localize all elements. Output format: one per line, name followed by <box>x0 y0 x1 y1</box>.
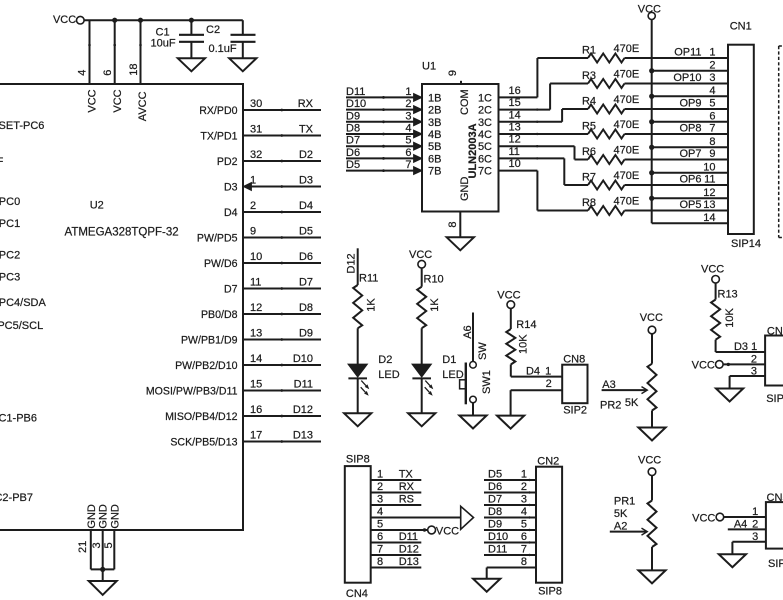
svg-text:2: 2 <box>377 481 383 493</box>
off-page arrow <box>461 506 474 529</box>
ic U2 ATMEGA328TQPF-32 body <box>0 84 243 530</box>
wire CN2 pin 2 D6 <box>484 492 536 494</box>
wire CN5 pin 3 to ground <box>732 541 766 543</box>
svg-text:1: 1 <box>545 366 551 378</box>
svg-text:R11: R11 <box>359 273 378 285</box>
svg-text:14: 14 <box>703 212 715 224</box>
svg-text:SCK/PB5/D13: SCK/PB5/D13 <box>170 437 237 449</box>
wire U1 input D9 <box>346 121 414 123</box>
svg-text:R14: R14 <box>516 319 536 331</box>
wire VCC bus CN1 <box>651 20 653 224</box>
svg-text:2: 2 <box>546 378 552 390</box>
svg-text:CN8: CN8 <box>563 353 585 365</box>
svg-text:SIP8: SIP8 <box>538 585 562 597</box>
ground <box>447 237 474 250</box>
wire U2 pin 11 <box>244 288 322 290</box>
connector CN1 SIP14 <box>728 45 754 234</box>
svg-text:SW1: SW1 <box>481 370 493 394</box>
pin 9 COM stub <box>460 81 462 84</box>
wire CN2 pin 3 D7 <box>484 504 536 506</box>
svg-text:R4: R4 <box>582 96 596 108</box>
svg-text:1B: 1B <box>428 92 441 104</box>
input arrow U1 pin 2 <box>414 106 422 114</box>
wire R14 to CN8 pin 1 <box>510 365 512 377</box>
svg-text:7: 7 <box>521 544 527 556</box>
svg-text:4: 4 <box>405 123 411 135</box>
wire U2 pin 15 <box>244 390 322 392</box>
svg-text:R6: R6 <box>582 146 596 158</box>
svg-text:D7: D7 <box>224 284 238 296</box>
svg-text:D7: D7 <box>299 277 313 289</box>
svg-text:VCC: VCC <box>497 289 520 301</box>
svg-text:D2: D2 <box>378 354 392 366</box>
svg-text:U1: U1 <box>422 61 436 73</box>
svg-text:D5: D5 <box>299 226 313 238</box>
svg-text:4B: 4B <box>428 129 441 141</box>
wire U2 pin 6 VCC drop <box>114 20 116 84</box>
svg-text:VCC: VCC <box>436 525 459 537</box>
svg-text:21: 21 <box>77 541 89 553</box>
svg-text:1: 1 <box>521 469 527 481</box>
wire CN1 pin 6 <box>652 121 728 123</box>
wire U1 output to R3 <box>499 109 551 111</box>
wire R13 to CN3 pin 1 <box>715 340 717 352</box>
svg-text:RX: RX <box>399 481 415 493</box>
potentiometer PR2 <box>648 364 657 411</box>
resistor R13 <box>711 300 720 340</box>
svg-text:D3: D3 <box>224 182 238 194</box>
svg-text:OP7: OP7 <box>679 148 701 160</box>
junction <box>112 18 117 23</box>
svg-text:3: 3 <box>377 494 383 506</box>
svg-text:7C: 7C <box>478 166 492 178</box>
ground <box>638 570 665 583</box>
wire R11 to D2 <box>357 328 359 364</box>
svg-text:D6: D6 <box>346 147 360 159</box>
svg-text:PW/PD5: PW/PD5 <box>197 233 238 245</box>
wire U2 pin 3 GND <box>102 530 104 569</box>
svg-text:D6: D6 <box>488 481 502 493</box>
svg-text:D11: D11 <box>346 86 365 98</box>
svg-text:RX/PD0: RX/PD0 <box>199 105 237 117</box>
svg-text:D12: D12 <box>293 404 313 416</box>
svg-text:470E: 470E <box>614 43 640 55</box>
svg-text:R10: R10 <box>424 274 444 286</box>
svg-text:D12: D12 <box>399 544 419 556</box>
svg-text:D1: D1 <box>442 354 456 366</box>
wire R3 to CN1 <box>625 83 729 85</box>
wire U2 pin 10 <box>244 262 322 264</box>
ic U1 ULN2003A body <box>422 84 499 212</box>
svg-text:18: 18 <box>128 63 140 75</box>
connector CN8 SIP2 <box>562 365 587 404</box>
wire U2 pin 13 <box>244 339 322 341</box>
wire VCC to R13 <box>715 283 717 299</box>
svg-text:8: 8 <box>521 556 527 568</box>
svg-text:6: 6 <box>102 70 114 76</box>
svg-text:12: 12 <box>509 134 521 146</box>
svg-text:PW/PB2/D10: PW/PB2/D10 <box>175 360 238 372</box>
svg-text:PC0: PC0 <box>0 196 20 208</box>
wire CN5 pin 2 A4 <box>728 528 766 530</box>
svg-text:3B: 3B <box>428 117 441 129</box>
svg-text:TX: TX <box>299 124 314 136</box>
svg-text:A4: A4 <box>734 518 747 530</box>
wire R4 to CN1 <box>625 108 729 110</box>
wire U2 pin 1 <box>244 186 322 188</box>
resistor R4 <box>588 105 625 114</box>
wire U2 pin 18 AVCC drop <box>140 20 142 84</box>
svg-text:U2: U2 <box>90 200 104 212</box>
svg-text:1: 1 <box>377 469 383 481</box>
resistor R11 <box>353 285 362 328</box>
svg-text:D12: D12 <box>346 253 358 273</box>
wire VCC to R10 <box>421 268 423 287</box>
svg-text:VCC: VCC <box>112 89 124 112</box>
svg-text:CN5: CN5 <box>767 492 783 504</box>
svg-text:PB0/D8: PB0/D8 <box>201 309 238 321</box>
wire CN2 pin 6 D10 <box>484 542 536 544</box>
junction <box>649 68 654 73</box>
svg-text:D9: D9 <box>488 519 502 531</box>
svg-text:6: 6 <box>405 147 411 159</box>
ground <box>229 58 256 71</box>
svg-text:D5: D5 <box>346 159 360 171</box>
svg-text:A3: A3 <box>602 379 615 391</box>
wire U2 pin 31 <box>244 135 322 137</box>
wire U2 pin 12 <box>244 313 322 315</box>
ground <box>473 579 500 592</box>
wire VCC rail <box>84 19 243 21</box>
wire U1 input D5 <box>346 170 414 172</box>
svg-text:6: 6 <box>377 531 383 543</box>
svg-text:TX: TX <box>399 469 414 481</box>
svg-text:11: 11 <box>704 174 715 186</box>
svg-text:PR2: PR2 <box>600 400 621 412</box>
svg-text:8: 8 <box>709 136 715 148</box>
wire U2 pin 9 <box>244 237 322 239</box>
svg-text:D11: D11 <box>294 379 313 391</box>
svg-text:1K: 1K <box>366 298 378 312</box>
wire CN2 pin 8 to ground <box>487 567 536 569</box>
svg-text:13: 13 <box>509 122 521 134</box>
svg-text:11: 11 <box>250 276 261 288</box>
wire U2 pin 2 <box>244 211 322 213</box>
wire U1 output to R1 <box>499 96 538 98</box>
wire D2 to ground <box>357 378 359 413</box>
wire U1 output to R8 <box>499 170 538 172</box>
svg-text:470E: 470E <box>614 170 640 182</box>
svg-text:D3: D3 <box>734 341 748 353</box>
wire U1 input D6 <box>346 157 414 159</box>
svg-text:7: 7 <box>377 544 383 556</box>
svg-text:10: 10 <box>250 251 262 263</box>
wire CN2 pin 7 D11 <box>484 554 536 556</box>
svg-text:VCC: VCC <box>638 455 661 467</box>
svg-text:2: 2 <box>709 59 715 71</box>
svg-text:D2: D2 <box>299 149 313 161</box>
svg-text:CN2: CN2 <box>537 456 559 468</box>
svg-text:OP9: OP9 <box>679 98 701 110</box>
svg-text:0.1uF: 0.1uF <box>209 43 237 55</box>
svg-text:5C: 5C <box>478 141 492 153</box>
junction <box>649 170 654 175</box>
junction <box>649 94 654 99</box>
wire C2 to ground <box>242 42 244 59</box>
led D2 <box>348 364 367 376</box>
svg-text:D13: D13 <box>399 556 419 568</box>
svg-text:5K: 5K <box>614 508 628 520</box>
svg-text:D11: D11 <box>488 544 507 556</box>
svg-text:D11: D11 <box>399 531 418 543</box>
wire U2 pin 17 <box>244 441 322 443</box>
svg-text:9: 9 <box>250 225 256 237</box>
wire CN4 pin 6 D11 <box>371 542 422 544</box>
svg-text:6B: 6B <box>428 153 441 165</box>
wire VCC to R14 <box>510 308 512 329</box>
resistor R10 <box>417 287 426 329</box>
wire CN3 pin 3 to ground <box>730 375 766 377</box>
wire R1 to CN1 <box>625 57 729 59</box>
svg-text:GND: GND <box>86 504 98 529</box>
wire CN2 pin 5 D9 <box>484 529 536 531</box>
svg-text:D8: D8 <box>299 302 313 314</box>
svg-text:PC4/SDA: PC4/SDA <box>0 297 46 309</box>
wire CN1 pin 4 <box>652 95 728 97</box>
svg-text:4: 4 <box>377 506 383 518</box>
svg-text:5: 5 <box>103 542 115 548</box>
wire U1 input D11 <box>346 96 414 98</box>
svg-text:7: 7 <box>405 159 411 171</box>
svg-text:31: 31 <box>250 123 262 135</box>
wire CN1 pin 2 <box>652 70 728 72</box>
svg-text:D10: D10 <box>293 353 313 365</box>
svg-text:MISO/PB4/D12: MISO/PB4/D12 <box>165 411 238 423</box>
svg-text:RESET-PC6: RESET-PC6 <box>0 120 44 132</box>
connector CN5 SIP3 <box>766 502 783 548</box>
svg-text:6: 6 <box>709 110 715 122</box>
svg-text:1C: 1C <box>478 92 492 104</box>
wire PR2 to ground <box>651 411 653 428</box>
resistor R6 <box>588 155 625 164</box>
svg-text:2C: 2C <box>478 105 492 117</box>
wire U1 7C.. out R5 <box>499 133 589 135</box>
svg-text:17: 17 <box>250 429 262 441</box>
wire R8 to CN1 <box>625 210 729 212</box>
wire CN4 pin 7 D12 <box>371 554 422 556</box>
svg-text:32: 32 <box>250 149 262 161</box>
svg-text:13: 13 <box>250 327 262 339</box>
svg-text:470E: 470E <box>614 94 640 106</box>
svg-text:10: 10 <box>703 161 715 173</box>
svg-text:PW/PB1/D9: PW/PB1/D9 <box>181 335 238 347</box>
svg-text:3: 3 <box>405 110 411 122</box>
svg-text:D9: D9 <box>346 110 360 122</box>
input arrow U2 pin 1 D3 <box>243 183 251 191</box>
svg-text:470E: 470E <box>614 119 640 131</box>
svg-text:D10: D10 <box>488 531 508 543</box>
svg-text:D8: D8 <box>346 123 360 135</box>
input arrow U1 pin 5 <box>414 142 422 150</box>
power flag VCC (CN4 pin 5) <box>428 526 436 534</box>
svg-text:13: 13 <box>703 199 715 211</box>
svg-text:SIP14: SIP14 <box>731 238 761 250</box>
svg-text:A2: A2 <box>614 520 627 532</box>
wire R10 to D1 <box>421 328 423 364</box>
svg-text:11: 11 <box>509 146 520 158</box>
svg-text:AREF: AREF <box>0 156 4 168</box>
dashed expansion box <box>779 46 783 238</box>
svg-text:2: 2 <box>752 518 758 530</box>
svg-text:C2: C2 <box>206 24 220 36</box>
resistor R14 <box>506 329 515 365</box>
resistor R3 <box>588 79 625 88</box>
svg-text:CN3: CN3 <box>767 325 783 337</box>
svg-text:OP8: OP8 <box>679 123 701 135</box>
junction <box>649 119 654 124</box>
wire U2 pin 21 GND <box>90 530 92 569</box>
svg-text:2: 2 <box>250 200 256 212</box>
wire U1 pin 8 GND <box>459 212 461 238</box>
svg-text:16: 16 <box>509 85 521 97</box>
svg-text:AVCC: AVCC <box>137 91 149 121</box>
wire SW1 to ground <box>472 403 474 416</box>
svg-text:PW/D6: PW/D6 <box>204 258 238 270</box>
junction <box>189 18 194 23</box>
svg-text:6: 6 <box>521 531 527 543</box>
wire R5 to CN1 <box>625 133 729 135</box>
wire CN4 pin 1 TX <box>371 479 422 481</box>
input arrow U1 pin 3 <box>414 118 422 126</box>
svg-text:D8: D8 <box>488 506 502 518</box>
switch SW1 <box>470 362 477 369</box>
junction <box>100 567 105 572</box>
svg-text:R7: R7 <box>582 172 596 184</box>
wire R7 to CN1 <box>625 184 729 186</box>
wire VCC to PR1 <box>651 476 653 501</box>
svg-text:14: 14 <box>509 109 521 121</box>
wire PR1 to ground <box>651 547 653 570</box>
capacitor C2 <box>231 34 256 36</box>
wire CN5 pin 1 <box>724 516 766 518</box>
svg-text:R13: R13 <box>718 288 738 300</box>
svg-text:10K: 10K <box>517 334 529 354</box>
wire U2 pin 30 <box>244 109 322 111</box>
wire C1 to ground <box>190 42 192 59</box>
svg-text:3: 3 <box>521 494 527 506</box>
svg-text:1: 1 <box>405 86 411 98</box>
svg-text:10K: 10K <box>724 307 736 327</box>
svg-text:3: 3 <box>751 365 757 377</box>
svg-text:8: 8 <box>447 221 459 227</box>
junction <box>649 145 654 150</box>
wire to C1 <box>190 20 192 34</box>
input arrow U1 pin 4 <box>414 130 422 138</box>
ground <box>638 428 665 441</box>
svg-text:D4: D4 <box>526 366 540 378</box>
svg-text:8: 8 <box>377 556 383 568</box>
svg-text:1: 1 <box>751 341 757 353</box>
svg-text:PC1: PC1 <box>0 218 20 230</box>
svg-text:4C: 4C <box>478 129 492 141</box>
wire CN4 pin 5 VCC <box>371 529 428 531</box>
wire U1 output to R4 <box>499 121 563 123</box>
wire U2 pin 32 <box>244 160 322 162</box>
svg-text:5: 5 <box>709 98 715 110</box>
svg-text:CN4: CN4 <box>346 588 368 600</box>
resistor R1 <box>588 54 625 63</box>
svg-text:OP11: OP11 <box>674 47 701 59</box>
svg-text:VCC: VCC <box>640 312 663 324</box>
svg-text:10: 10 <box>509 158 521 170</box>
svg-text:R5: R5 <box>582 121 596 133</box>
wire U1 output to R6 <box>499 145 575 147</box>
svg-text:2: 2 <box>405 98 411 110</box>
ground <box>408 413 435 426</box>
capacitor C1 <box>179 34 204 36</box>
svg-text:5B: 5B <box>428 141 441 153</box>
resistor R5 <box>588 130 625 139</box>
svg-text:VCC: VCC <box>701 263 724 275</box>
svg-text:D7: D7 <box>346 135 360 147</box>
svg-text:15: 15 <box>509 97 521 109</box>
wire to C2 <box>242 20 244 34</box>
svg-text:OSC2-PB7: OSC2-PB7 <box>0 492 33 504</box>
input arrow U1 pin 1 <box>414 94 422 102</box>
connector CN4 SIP8 <box>345 466 371 583</box>
svg-text:GND: GND <box>459 177 471 202</box>
svg-text:10uF: 10uF <box>151 38 176 50</box>
input arrow U1 pin 7 <box>414 167 422 175</box>
svg-text:3: 3 <box>752 531 758 543</box>
svg-text:R3: R3 <box>582 70 596 82</box>
wire to ground <box>102 569 104 581</box>
svg-text:5K: 5K <box>625 397 639 409</box>
wire CN1 pin 8 <box>652 146 728 148</box>
svg-text:SW: SW <box>477 342 489 360</box>
svg-text:VCC: VCC <box>409 249 432 261</box>
svg-text:GND: GND <box>109 504 121 529</box>
wiper A2 <box>610 531 646 533</box>
svg-text:D5: D5 <box>488 469 502 481</box>
svg-text:PD2: PD2 <box>217 156 238 168</box>
wire CN1 pin 12 <box>652 197 728 199</box>
svg-text:470E: 470E <box>614 196 640 208</box>
wire CN1 pin 10 <box>652 172 728 174</box>
svg-text:9: 9 <box>709 148 715 160</box>
svg-text:OP10: OP10 <box>673 72 701 84</box>
svg-text:6C: 6C <box>478 153 492 165</box>
svg-text:A6: A6 <box>462 325 474 338</box>
connector CN3 SIP3 <box>765 336 783 386</box>
svg-text:OSC1-PB6: OSC1-PB6 <box>0 413 37 425</box>
wire CN4 pin 4 (arrow) <box>371 517 461 519</box>
resistor R7 <box>588 181 625 190</box>
svg-text:D4: D4 <box>224 207 238 219</box>
ground <box>178 58 205 71</box>
svg-text:7: 7 <box>709 123 715 135</box>
svg-text:SIP3: SIP3 <box>766 393 783 405</box>
svg-text:PR1: PR1 <box>614 495 635 507</box>
svg-text:D4: D4 <box>299 200 313 212</box>
wire CN4 pin 2 RX <box>371 492 422 494</box>
svg-text:VCC: VCC <box>692 359 715 371</box>
wire U2 pin 5 GND <box>113 530 115 569</box>
svg-text:2: 2 <box>521 481 527 493</box>
ground <box>497 416 524 429</box>
svg-text:OP5: OP5 <box>679 199 701 211</box>
svg-text:470E: 470E <box>614 69 640 81</box>
